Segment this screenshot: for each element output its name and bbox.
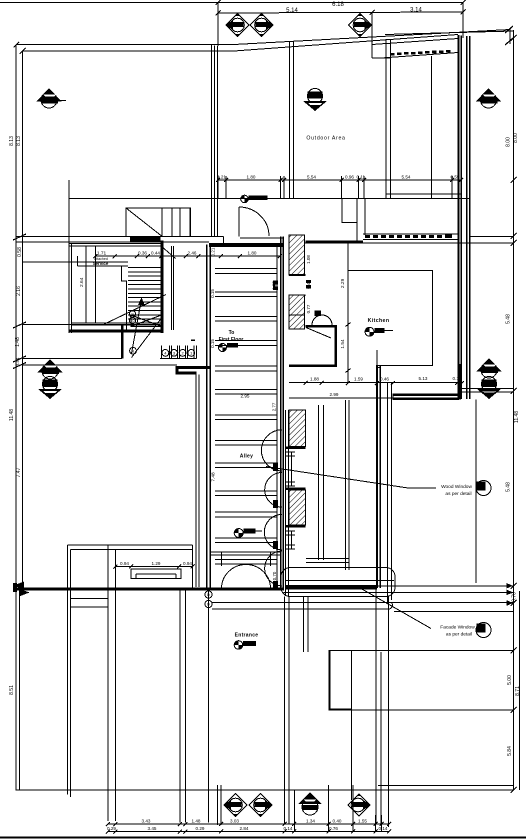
kitchen flag symbol bbox=[365, 327, 393, 336]
kitchen south-east corner wall thick bbox=[458, 364, 462, 399]
svg-text:Alley: Alley bbox=[240, 454, 253, 460]
bottom dim line 1 bbox=[108, 823, 389, 825]
kitchen west wall gap hinge blob bbox=[273, 281, 278, 291]
line y=609 with rounded cap bbox=[212, 603, 392, 610]
alley top wall band bbox=[209, 243, 284, 247]
service room west wall inner line bbox=[71, 244, 73, 334]
property line thick left bbox=[14, 588, 284, 591]
bench outline bbox=[131, 569, 181, 579]
stair arrow head bbox=[138, 298, 145, 306]
south yard top line bbox=[329, 650, 514, 652]
svg-text:0.29: 0.29 bbox=[107, 826, 116, 831]
svg-text:3.43: 3.43 bbox=[142, 819, 151, 824]
svg-text:0.58: 0.58 bbox=[17, 247, 23, 257]
left lower wall line b below property line bbox=[19, 589, 21, 790]
facade window detail circle bbox=[476, 623, 491, 638]
entrance flag symbol bbox=[234, 641, 256, 650]
alley bottom double door arc right bbox=[246, 565, 271, 589]
line y=586 to right bbox=[377, 585, 513, 587]
service dim ticks bbox=[93, 254, 282, 258]
svg-text:5.54: 5.54 bbox=[402, 175, 411, 180]
alley top door leaf bbox=[238, 207, 240, 236]
lower vertical x=381 bbox=[380, 652, 382, 824]
east pier wall thin pair bbox=[286, 410, 289, 596]
svg-text:1.59: 1.59 bbox=[354, 377, 363, 382]
svg-text:2.64: 2.64 bbox=[79, 277, 85, 287]
kitchen south dim line y=382.7 bbox=[289, 382, 461, 384]
svg-text:1.29: 1.29 bbox=[152, 561, 161, 566]
alley bottom door jamb left bbox=[221, 552, 223, 566]
svg-text:8.13: 8.13 bbox=[16, 136, 22, 146]
svg-text:Kitchen: Kitchen bbox=[368, 318, 390, 324]
svg-text:0.15: 0.15 bbox=[210, 289, 215, 298]
alley bottom door jamb right bbox=[270, 552, 272, 566]
entrance east wall double lower bbox=[285, 597, 290, 825]
svg-text:0.36: 0.36 bbox=[138, 251, 147, 256]
outdoor dim line y=180 bbox=[218, 179, 462, 181]
top right extra line bbox=[385, 31, 513, 35]
svg-text:5.48: 5.48 bbox=[506, 482, 512, 492]
north wall of service thick segment bbox=[130, 236, 161, 242]
entrance east second pair bbox=[304, 597, 309, 653]
svg-text:0.70: 0.70 bbox=[512, 592, 518, 602]
svg-text:10: 10 bbox=[130, 318, 135, 323]
svg-text:Service: Service bbox=[93, 261, 109, 266]
shelf line y=598.5 bbox=[70, 598, 108, 600]
svg-text:Facade Window: Facade Window bbox=[440, 625, 475, 631]
svg-text:8.00: 8.00 bbox=[506, 137, 512, 147]
svg-text:0.70: 0.70 bbox=[272, 571, 277, 580]
svg-text:5.54: 5.54 bbox=[307, 175, 316, 180]
planter west vertical b bbox=[69, 550, 71, 798]
property line arrows left corner bbox=[13, 582, 30, 597]
clerestory window base line bbox=[381, 53, 458, 59]
east double wall pair outer bbox=[459, 35, 462, 399]
alley east door arc 3 bbox=[264, 514, 282, 549]
stair upper flight diagonal bbox=[126, 208, 162, 236]
south yard west wall thick bbox=[328, 651, 330, 710]
grid marker bubble A left-arrow top (237.5,25) bbox=[226, 13, 250, 36]
north wall lines to right edge bbox=[470, 236, 514, 243]
grid marker bubble bottom 4 right-arrow (359,805) bbox=[348, 793, 371, 816]
svg-text:Entrance: Entrance bbox=[235, 633, 259, 639]
alley east door arc 1 bbox=[261, 430, 282, 471]
left dim tick y=325 bbox=[13, 322, 26, 328]
planter top line b bbox=[70, 549, 192, 551]
svg-text:1.88: 1.88 bbox=[310, 377, 319, 382]
right arrowheads bbox=[507, 583, 514, 606]
planter mid vertical b bbox=[114, 550, 116, 822]
stair flight boundary verticals bbox=[171, 246, 173, 330]
entrance west wall double bbox=[196, 375, 199, 588]
kitchen south wall thick band bbox=[393, 394, 459, 400]
alley bottom double door arc left bbox=[222, 565, 247, 589]
svg-text:5.00: 5.00 bbox=[507, 675, 513, 685]
top border line bbox=[0, 2, 463, 4]
revision cloud rounded rect bbox=[281, 568, 395, 597]
bottom dim texts row1 bbox=[142, 819, 368, 824]
svg-text:1.34: 1.34 bbox=[306, 819, 315, 824]
vestibule door arc bbox=[312, 315, 332, 325]
stair circled number 8 bbox=[130, 347, 137, 354]
outdoor area west wall triple lines bbox=[211, 45, 217, 236]
svg-text:1.85: 1.85 bbox=[271, 281, 276, 290]
stair arrow diagonal long bbox=[104, 295, 167, 325]
first floor flag symbol bbox=[219, 343, 249, 351]
alley east door hinge 1 bbox=[273, 463, 278, 472]
svg-text:5.48: 5.48 bbox=[506, 314, 512, 324]
stair bottom landing box with X bbox=[131, 315, 162, 327]
svg-text:Outdoor Area: Outdoor Area bbox=[306, 136, 345, 142]
svg-text:First Floor: First Floor bbox=[219, 337, 244, 343]
svg-text:0.44: 0.44 bbox=[15, 357, 20, 366]
dim extension mid x=372 bbox=[371, 12, 373, 58]
svg-text:0.46: 0.46 bbox=[380, 377, 389, 382]
south yard mid line bbox=[329, 709, 514, 711]
line y=592 to right bbox=[284, 591, 514, 593]
alley east door hinge 3 bbox=[273, 541, 278, 549]
wall recess above kitchen bbox=[342, 199, 365, 241]
facade window wall top line bbox=[286, 580, 394, 582]
bottom dim extension stubs bbox=[218, 785, 382, 832]
grid marker bubble bottom 1 left-arrow (235.5,805) bbox=[224, 794, 248, 817]
alley flag symbol 2 bbox=[234, 529, 262, 538]
bottom border line bbox=[0, 836, 526, 838]
kitchen south-west thick wall vertical bbox=[376, 365, 380, 367]
alley bottom wall circles bbox=[205, 591, 212, 608]
stair upper flight risers bbox=[162, 208, 190, 236]
svg-text:8.13: 8.13 bbox=[9, 136, 15, 146]
corridor south-west jog thick bbox=[177, 369, 197, 373]
svg-text:0.55: 0.55 bbox=[451, 175, 460, 180]
alley bottom circle letters bbox=[207, 592, 210, 607]
east window frame opening 2 bbox=[286, 531, 296, 549]
dim tick at 218,13 bbox=[216, 0, 221, 16]
alley east door hinge 4 bbox=[273, 581, 278, 589]
left lower wall line a below property line bbox=[15, 589, 17, 790]
svg-text:0.11: 0.11 bbox=[356, 175, 365, 180]
planter east vertical bbox=[192, 545, 194, 588]
stair bottom tread line bbox=[160, 358, 197, 360]
svg-text:11.48: 11.48 bbox=[9, 409, 15, 421]
right dim ticks bbox=[511, 35, 517, 793]
dim line 5.14 / 3.14 bbox=[218, 12, 463, 13]
kitchen north window strip lines bbox=[363, 234, 459, 239]
svg-text:To: To bbox=[229, 330, 235, 336]
vestibule east wall thick bbox=[334, 325, 337, 367]
svg-text:0.77: 0.77 bbox=[306, 304, 311, 313]
wood window detail circle bbox=[476, 481, 491, 496]
top-left wall outer line bbox=[16, 44, 234, 46]
alley east wall thick pair bbox=[281, 236, 284, 589]
outdoor area bottom wall line bbox=[69, 198, 470, 200]
outdoor dim ticks y=180 bbox=[216, 178, 463, 182]
level marker down-triangle outdoor (315,97.5) bbox=[303, 89, 327, 112]
svg-text:0.94: 0.94 bbox=[120, 561, 129, 566]
alley east door arc 2 bbox=[265, 473, 282, 508]
planter west vertical a bbox=[67, 545, 69, 795]
svg-text:7.47: 7.47 bbox=[16, 467, 22, 477]
service south wall thick bbox=[69, 329, 164, 332]
stair notch wall bbox=[122, 266, 127, 330]
service interior vertical b bbox=[94, 246, 96, 323]
to first floor label bbox=[219, 330, 244, 343]
dim extension left x=218 bbox=[217, 3, 219, 46]
alley bottom door header line b bbox=[211, 554, 281, 556]
line y=611.5 right bbox=[394, 611, 513, 613]
svg-text:1.80: 1.80 bbox=[247, 175, 256, 180]
east window frame opening 1 bbox=[286, 452, 296, 486]
roof slant line inner bbox=[234, 35, 458, 52]
right dimension extension line full height bbox=[513, 30, 515, 790]
svg-text:3.45: 3.45 bbox=[148, 826, 157, 831]
svg-text:0.96: 0.96 bbox=[345, 175, 354, 180]
left dim tick y=359 bbox=[13, 356, 26, 369]
outdoor area mid wall double bbox=[289, 42, 293, 199]
svg-text:2.95: 2.95 bbox=[241, 393, 250, 398]
svg-text:2.29: 2.29 bbox=[340, 278, 346, 288]
kitchen north wall thin continuation bbox=[289, 242, 470, 244]
outdoor area east inner wall double bbox=[386, 39, 391, 199]
stair treads left flight bbox=[128, 268, 161, 320]
svg-text:Wood Window: Wood Window bbox=[441, 484, 472, 490]
svg-text:as per detail: as per detail bbox=[445, 491, 471, 497]
svg-text:D: D bbox=[207, 592, 210, 597]
wood window leader line bbox=[266, 467, 436, 489]
dim tick at 372,12.5 bbox=[370, 10, 375, 15]
service interior vertical a bbox=[85, 246, 87, 323]
entrance west wall double lower bbox=[180, 589, 186, 823]
bench dim ticks bbox=[113, 565, 194, 569]
svg-text:1.80: 1.80 bbox=[248, 251, 257, 256]
dim tick at 463,12 bbox=[461, 0, 466, 15]
svg-text:0.21: 0.21 bbox=[211, 247, 216, 256]
svg-text:1.71: 1.71 bbox=[97, 251, 107, 257]
south yard mid line thick part bbox=[329, 709, 352, 711]
stair bottom diagonal bbox=[132, 318, 162, 358]
alley bottom circles stem bbox=[208, 589, 210, 823]
level marker up-triangle right (488.5,98) bbox=[476, 88, 501, 108]
svg-text:2.99: 2.99 bbox=[330, 392, 339, 397]
facade window leader bbox=[361, 589, 431, 629]
alley east wall thin bbox=[276, 244, 278, 586]
shelf line y=607.5 bbox=[70, 606, 108, 608]
left property wall outer line bbox=[15, 45, 17, 590]
svg-text:5.14: 5.14 bbox=[286, 8, 298, 14]
svg-text:8.71: 8.71 bbox=[515, 686, 521, 696]
lower vertical x=388.3 bbox=[387, 596, 389, 827]
outdoor dim extension verticals bbox=[218, 176, 461, 199]
service room west wall line bbox=[68, 180, 70, 333]
vestibule door hinge blob bbox=[315, 311, 322, 317]
bottom dim texts row2 bbox=[107, 826, 388, 831]
left dim tick y=237 bbox=[13, 234, 26, 240]
alley top door flag bbox=[241, 195, 268, 203]
kitchen north window dashes bbox=[365, 235, 452, 238]
bottom property line y=790 bbox=[16, 789, 514, 791]
east wall double x 387.5 bbox=[388, 383, 392, 602]
svg-text:8.00: 8.00 bbox=[513, 133, 519, 143]
service south thin line bbox=[23, 324, 161, 326]
facade window wall thick bar bbox=[286, 585, 377, 590]
svg-text:as per detail: as per detail bbox=[446, 632, 472, 638]
stair circled numbers 1-4 bbox=[162, 350, 195, 357]
service room north wall double bbox=[69, 244, 161, 247]
level marker up-triangle left wall (49,97.5) bbox=[37, 88, 67, 108]
svg-text:0.15: 0.15 bbox=[210, 339, 215, 348]
stair bottom risers bbox=[162, 346, 197, 359]
svg-text:1.54: 1.54 bbox=[340, 339, 346, 349]
level marker up-triangle mid-left (50,366.5) bbox=[38, 359, 63, 379]
stair small mark bbox=[191, 339, 195, 341]
grid marker bubble B right-arrow top (261.5,25) bbox=[250, 13, 274, 36]
lower vertical x=375.8 bbox=[375, 589, 377, 824]
svg-text:3.03: 3.03 bbox=[230, 819, 239, 824]
svg-text:0.21: 0.21 bbox=[217, 175, 226, 180]
top right corner ticks bbox=[505, 26, 513, 45]
stair arrow diagonal 2 bbox=[132, 299, 142, 354]
svg-text:2.46: 2.46 bbox=[188, 251, 197, 256]
roof slant line outer bbox=[234, 30, 510, 45]
yard east boundary vertical bbox=[475, 399, 477, 583]
level marker down-triangle mid-left (50,385.5) bbox=[38, 377, 62, 400]
svg-text:0.40: 0.40 bbox=[333, 819, 342, 824]
svg-text:6.18: 6.18 bbox=[332, 2, 344, 8]
kitchen interior dim extension x=348 bbox=[347, 243, 349, 383]
top right corner stub bbox=[509, 28, 511, 44]
bottom dim line 2 bbox=[108, 831, 389, 833]
svg-text:2.16: 2.16 bbox=[16, 286, 22, 296]
kitchen interior floor outline bbox=[348, 271, 433, 366]
stair upper flight box bbox=[126, 208, 191, 236]
svg-text:0.29: 0.29 bbox=[196, 826, 205, 831]
level marker up-triangle right pair (489,366) bbox=[477, 358, 502, 378]
kitchen east inner line to right edge b bbox=[461, 391, 514, 393]
svg-text:11.48: 11.48 bbox=[514, 411, 520, 423]
dim line service y=256 bbox=[95, 255, 280, 257]
service dim extension x=77.5 bbox=[77, 256, 79, 266]
roof slant line third bbox=[372, 39, 458, 45]
top-left corner tick bbox=[14, 42, 26, 54]
svg-text:3.14: 3.14 bbox=[410, 8, 422, 14]
facade window label bbox=[440, 625, 475, 638]
kitchen west wall hatch lower bbox=[289, 295, 305, 329]
east inner room wall vertical pair b bbox=[346, 400, 350, 570]
kitchen west wall hatch upper bbox=[289, 235, 305, 275]
svg-text:7.48: 7.48 bbox=[211, 472, 217, 482]
svg-text:1.48: 1.48 bbox=[15, 337, 21, 347]
svg-text:0.76: 0.76 bbox=[329, 826, 338, 831]
planter top line a bbox=[68, 544, 193, 546]
stair west wall thick lower bbox=[121, 325, 124, 359]
svg-text:1.08: 1.08 bbox=[306, 255, 311, 264]
svg-text:8.51: 8.51 bbox=[9, 685, 15, 695]
bottom dim ticks bbox=[106, 822, 391, 834]
alley top door sill line bbox=[240, 237, 283, 239]
room line y=358.5 left bbox=[23, 358, 197, 360]
east double wall pair inner bbox=[467, 36, 470, 399]
alley top dim line bbox=[224, 255, 282, 257]
service inner bottom line bbox=[72, 323, 162, 325]
north wall of service thin double y=236-242 bbox=[16, 236, 224, 243]
east pier hatch cap 1 bbox=[286, 447, 306, 449]
east room bottom lines bbox=[306, 559, 349, 563]
bottom line y=785 bbox=[378, 785, 514, 787]
south yard vertical x351 bbox=[351, 651, 353, 800]
svg-text:D: D bbox=[207, 602, 210, 607]
right dim extension second x=519.5 bbox=[519, 591, 521, 790]
dim extension right x=463 bbox=[462, 3, 464, 38]
vestibule north wall thick bbox=[306, 325, 337, 328]
alley tread bands bbox=[215, 269, 277, 564]
svg-text:0.94: 0.94 bbox=[183, 561, 192, 566]
vestibule door leaf bbox=[306, 328, 331, 339]
kitchen east inner line to right edge a bbox=[461, 388, 514, 390]
svg-text:2.84: 2.84 bbox=[240, 826, 249, 831]
left property wall inner line bbox=[22, 51, 24, 589]
kitchen west wall gap jamb marks bbox=[306, 280, 311, 289]
svg-text:0.14: 0.14 bbox=[379, 826, 388, 831]
alley top door arc bbox=[239, 207, 269, 236]
svg-text:2.77: 2.77 bbox=[271, 402, 276, 411]
stair mid wall thick bbox=[161, 241, 164, 334]
grid marker bubble C right-arrow top (360,25) bbox=[349, 13, 373, 36]
top-left wall inner line bbox=[23, 50, 235, 52]
east pier hatch block 2 bbox=[289, 490, 306, 525]
kitchen interior step vertical bbox=[376, 350, 378, 365]
grid marker bubble bottom 3 up-arrow (310,805) bbox=[298, 793, 322, 816]
east pier hatch cap 3 bbox=[286, 525, 306, 527]
kitchen south dim ticks bbox=[304, 381, 464, 385]
stair landing line y=266 bbox=[78, 265, 129, 267]
svg-text:5.13: 5.13 bbox=[419, 376, 428, 381]
level marker down-triangle right pair (489,385.5) bbox=[477, 377, 501, 400]
svg-text:0.14: 0.14 bbox=[284, 826, 293, 831]
connector stub at x372 bbox=[372, 57, 390, 59]
svg-text:1.48: 1.48 bbox=[192, 819, 201, 824]
alley east door arc 4 bbox=[265, 551, 282, 586]
grid marker bubble bottom 2 right-arrow (260.5,805) bbox=[249, 794, 273, 817]
stair diagonal top right bbox=[161, 246, 176, 259]
svg-text:0.45: 0.45 bbox=[306, 280, 311, 289]
kitchen interior dim ticks on x=348 bbox=[346, 323, 351, 373]
east thick wall long vertical bbox=[377, 365, 380, 588]
clerestory window dashes bbox=[390, 50, 451, 55]
east pier hatch cap 2 bbox=[286, 488, 306, 490]
svg-text:0.44: 0.44 bbox=[151, 251, 160, 256]
wood window label bbox=[441, 484, 472, 497]
svg-text:5.84: 5.84 bbox=[507, 746, 513, 756]
svg-text:1.55: 1.55 bbox=[358, 819, 367, 824]
bench inner detail bbox=[136, 574, 176, 579]
room line y=365 left bbox=[23, 364, 178, 366]
kitchen north wall thick bbox=[306, 241, 363, 244]
east pier hatch block 1 bbox=[289, 410, 306, 447]
outdoor area window mullion line bbox=[430, 56, 432, 199]
vestibule south wall thick bbox=[289, 365, 337, 368]
outdoor area bottom second line bbox=[386, 193, 462, 195]
alley west wall thick pair bbox=[207, 244, 210, 588]
line y=602.5 long bbox=[212, 602, 513, 604]
kitchen south dim line2 y=397.8 bbox=[289, 397, 393, 399]
upper interior wall line y=199 bbox=[69, 198, 211, 200]
kitchen west wall door gap caps bbox=[289, 275, 306, 295]
alley east door hinge 2 bbox=[273, 500, 278, 508]
alley bottom door header line bbox=[211, 551, 281, 553]
planter mid vertical a bbox=[107, 545, 109, 821]
stair circled numbers 9 10 bbox=[129, 311, 135, 324]
vestibule hatch pier bbox=[289, 315, 305, 329]
